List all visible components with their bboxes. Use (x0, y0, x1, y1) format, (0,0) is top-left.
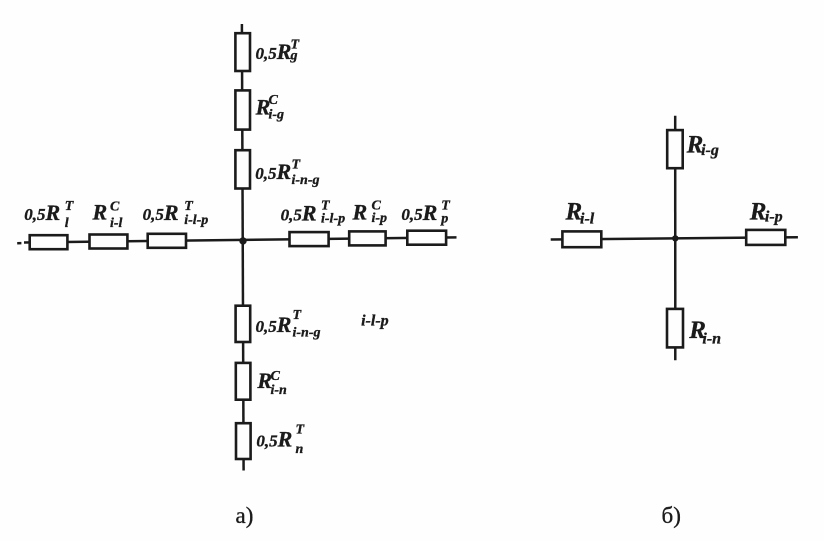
label Ri-l (b) left branch (565, 199, 595, 228)
svg-text:T: T (293, 308, 303, 323)
svg-text:0,5R: 0,5R (143, 200, 179, 225)
svg-text:i-g: i-g (701, 142, 719, 159)
svg-text:0,5R: 0,5R (281, 200, 317, 225)
svg-text:g: g (290, 49, 298, 64)
node: circuit (b) center junction (672, 235, 678, 241)
svg-text:i-l-p: i-l-p (184, 213, 208, 228)
svg-text:0,5R: 0,5R (256, 312, 292, 337)
svg-text:i-n-g: i-n-g (292, 173, 320, 188)
wire: circuit (b) vertical bus (674, 116, 677, 360)
svg-text:i-n: i-n (702, 330, 721, 347)
svg-text:T: T (296, 423, 306, 438)
label Ri-g (b) top branch (686, 132, 719, 160)
resistor Ri-p (a) right branch second (349, 231, 385, 245)
resistor Ri-g (b) top branch (667, 130, 683, 168)
label Ri-g^C (a) top branch second (255, 93, 284, 123)
label Ri-l^C (a) left branch second (92, 199, 123, 231)
resistor 0,5Rl (a) left branch first (30, 235, 68, 249)
svg-text:T: T (65, 199, 75, 214)
label Ri-p (b) right branch (749, 199, 783, 226)
wire: circuit (b) horizontal bus (551, 237, 798, 239)
resistor 0,5Ri-l-p (a) left branch third (148, 234, 186, 248)
label 0,5Ri-l-p^T (a) right branch first (281, 199, 346, 227)
svg-text:0,5R: 0,5R (256, 427, 292, 452)
svg-text:C: C (110, 199, 120, 214)
svg-text:а): а) (236, 503, 254, 528)
svg-text:i-l: i-l (580, 210, 595, 227)
resistor Ri-l (b) left branch (562, 231, 601, 247)
svg-text:б): б) (662, 503, 681, 528)
svg-text:0,5R: 0,5R (256, 39, 292, 64)
svg-text:0,5R: 0,5R (401, 200, 437, 225)
svg-text:i-n-g: i-n-g (293, 326, 321, 341)
label 0,5Ri-n-g^T (a) top branch third (255, 157, 319, 188)
resistor 0,5Ri-l-p (a) right branch first (290, 232, 329, 246)
svg-text:R: R (92, 200, 108, 225)
label 0,5Ri-l-p^T (a) left branch third (143, 199, 209, 228)
resistor 0,5Rn (a) bottom branch third (236, 423, 251, 459)
svg-text:C: C (269, 93, 279, 108)
svg-text:n: n (296, 442, 304, 457)
resistor 0,5Rp (a) right branch third (407, 231, 446, 245)
node: circuit (a) center junction (239, 237, 246, 244)
svg-text:i-l-p: i-l-p (361, 313, 389, 330)
svg-text:0,5R: 0,5R (24, 200, 60, 225)
wire: circuit (a) horizontal bus (24, 237, 457, 242)
label 0,5Rn^T (a) bottom branch third (256, 423, 305, 457)
resistor 0,5Ri-n-g (a) top branch third (235, 150, 250, 188)
label 0,5Rl^T (a) left branch first (24, 199, 74, 231)
svg-text:i-p: i-p (372, 211, 388, 226)
svg-text:R: R (352, 200, 368, 225)
wire: circuit (a) left terminal dash (17, 242, 21, 245)
svg-text:i-l-p: i-l-p (321, 212, 345, 227)
label 0,5Rg^T (a) top branch first (256, 37, 301, 63)
label Ri-n^C (a) bottom branch second (256, 368, 287, 398)
resistor Ri-p (b) right branch (746, 230, 785, 245)
wire: circuit (a) vertical bus (242, 24, 244, 471)
resistor 0,5Ri-n-g (a) bottom branch first (236, 306, 251, 342)
resistor Ri-n (b) bottom branch (667, 309, 683, 348)
resistor Ri-g (a) top branch second (235, 90, 250, 129)
svg-text:i-g: i-g (269, 108, 285, 123)
svg-text:l: l (65, 216, 69, 231)
label Ri-n (b) bottom branch (688, 317, 721, 347)
label 0,5Rp^T (a) right branch third (401, 198, 451, 226)
svg-text:T: T (184, 199, 194, 214)
svg-text:i-l: i-l (110, 216, 123, 231)
label 0,5Ri-n-g^T (a) bottom branch first (256, 308, 321, 341)
resistor 0,5Rg (a) top branch first (235, 33, 250, 71)
svg-text:T: T (292, 157, 302, 172)
svg-text:i-p: i-p (765, 208, 783, 225)
svg-text:i-n: i-n (271, 383, 288, 398)
svg-text:R: R (749, 199, 767, 226)
svg-text:C: C (271, 369, 281, 384)
label Ri-p^C (a) right branch second (352, 199, 388, 226)
resistor Ri-l (a) left branch second (90, 235, 128, 249)
resistor Ri-n (a) bottom branch second (236, 363, 251, 400)
svg-text:p: p (440, 211, 448, 226)
svg-text:0,5R: 0,5R (255, 159, 291, 184)
